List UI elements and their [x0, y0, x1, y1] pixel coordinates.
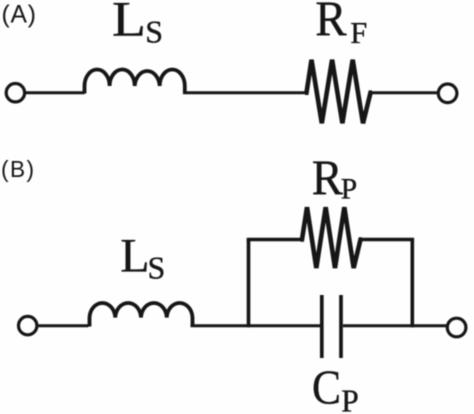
wire	[343, 324, 446, 327]
inductor LS (B)	[90, 303, 193, 327]
wire	[183, 91, 306, 94]
svg-text:S: S	[145, 14, 163, 50]
capacitor CP plate right	[339, 295, 343, 358]
svg-text:L: L	[112, 0, 146, 47]
svg-text:R: R	[312, 150, 343, 205]
node: box right vertical	[410, 240, 414, 328]
wire: box top-right	[362, 238, 414, 242]
node: box left vertical	[247, 240, 251, 328]
wire	[39, 324, 89, 327]
resistor RF	[305, 60, 372, 124]
svg-text:F: F	[350, 16, 367, 50]
inductor LS (A)	[85, 70, 185, 94]
resistor RP	[301, 207, 363, 268]
svg-text:R: R	[315, 0, 347, 46]
terminal A-right	[438, 84, 457, 103]
wire	[26, 91, 85, 94]
svg-text:P: P	[341, 384, 359, 414]
wire: box top-left	[247, 238, 302, 242]
terminal A-left	[6, 84, 24, 102]
svg-text:(A): (A)	[2, 2, 37, 29]
svg-text:S: S	[148, 250, 166, 286]
wire	[372, 91, 438, 94]
svg-text:P: P	[341, 174, 357, 206]
svg-text:C: C	[312, 360, 341, 414]
terminal B-right	[447, 318, 466, 337]
svg-text:(B): (B)	[1, 156, 35, 182]
wire	[191, 324, 321, 327]
capacitor CP plate left	[320, 295, 324, 358]
svg-text:L: L	[120, 230, 149, 283]
terminal B-left	[19, 316, 37, 334]
